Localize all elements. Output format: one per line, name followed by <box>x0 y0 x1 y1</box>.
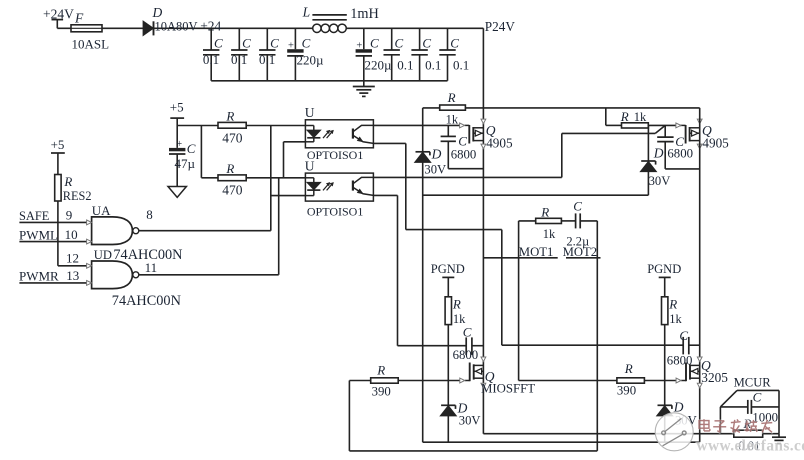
net MOT2 <box>563 245 601 259</box>
svg-text:C: C <box>422 36 431 51</box>
svg-text:SAFE: SAFE <box>19 209 49 223</box>
svg-text:UA: UA <box>92 203 111 218</box>
transistor Q MIOSFFT (left low N-MOSFET) <box>460 357 535 396</box>
pin 11 label <box>145 260 158 275</box>
svg-text:12: 12 <box>66 251 79 266</box>
svg-text:10ASL: 10ASL <box>72 36 110 51</box>
resistor R RES2 <box>55 174 92 203</box>
svg-text:C: C <box>242 36 251 51</box>
svg-text:P24V: P24V <box>485 19 516 34</box>
wire left gate-pullup branch <box>422 108 424 442</box>
capacitor C 6800 (right low-side) <box>667 328 693 368</box>
svg-text:C: C <box>753 390 762 405</box>
svg-text:1k: 1k <box>634 110 647 124</box>
node +24 <box>200 19 221 34</box>
wire source rail <box>483 433 779 435</box>
svg-text:R: R <box>376 363 385 378</box>
svg-text:6800: 6800 <box>453 348 479 362</box>
svg-text:74AHC00N: 74AHC00N <box>112 293 181 309</box>
wire right gate line <box>519 380 677 382</box>
svg-text:13: 13 <box>66 268 79 283</box>
port PGND (left) <box>431 262 465 297</box>
svg-text:U: U <box>305 159 315 174</box>
capacitor C 2.2u (snubber) <box>566 199 597 249</box>
svg-text:PWML: PWML <box>19 227 58 242</box>
capacitor C 0.1 (input group 2) <box>231 28 251 81</box>
svg-text:+5: +5 <box>170 100 184 115</box>
wire opto1 cathode <box>284 142 306 178</box>
svg-text:D: D <box>653 145 664 160</box>
wire low drain link (right) <box>502 344 700 346</box>
svg-text:1k: 1k <box>669 312 682 326</box>
svg-text:PGND: PGND <box>647 262 681 276</box>
svg-text:220µ: 220µ <box>297 52 325 67</box>
wire +5 to R470s <box>177 126 218 178</box>
pin 12 label <box>66 251 79 266</box>
wire opto2 collector run <box>373 133 655 177</box>
svg-text:D: D <box>431 147 442 162</box>
resistor R 390 (left) <box>371 363 399 399</box>
svg-text:RES2: RES2 <box>63 189 92 203</box>
diode D 30V (right high-side zener) <box>641 125 671 195</box>
resistor R 1k (left high-side) <box>440 90 466 127</box>
svg-text:C: C <box>395 36 404 51</box>
wire R470 upper to opto1 anode <box>246 125 305 127</box>
wire opto2 cathode <box>271 195 306 197</box>
optocoupler U OPTOISO1 (lower) <box>305 159 374 219</box>
svg-text:+5: +5 <box>51 137 65 152</box>
svg-text:4905: 4905 <box>486 136 513 151</box>
wire right low branch <box>664 325 666 443</box>
port +5 (logic) <box>51 137 65 174</box>
wire diagonal to right gate <box>655 125 665 133</box>
nand-gate UA 74AHC00N <box>87 203 183 263</box>
capacitor C 0.1 (input group 1) <box>203 28 223 81</box>
wire P24V rail (left bridge) <box>482 28 484 433</box>
svg-text:0.1: 0.1 <box>397 58 413 73</box>
svg-text:470: 470 <box>222 131 243 146</box>
svg-text:47µ: 47µ <box>175 156 196 171</box>
svg-text:C: C <box>463 324 472 339</box>
svg-text:0.1: 0.1 <box>231 52 247 67</box>
svg-text:D: D <box>152 5 163 20</box>
svg-text:C: C <box>679 328 688 343</box>
node P24V <box>485 19 516 34</box>
capacitor C 0.1 (output group 3) <box>439 28 469 81</box>
svg-text:30V: 30V <box>459 414 481 428</box>
svg-text:R: R <box>668 297 677 312</box>
svg-text:R: R <box>624 361 633 376</box>
svg-text:4905: 4905 <box>702 136 729 151</box>
svg-text:470: 470 <box>222 182 243 197</box>
wire out11 riser <box>278 178 280 275</box>
svg-text:MCUR: MCUR <box>734 376 772 390</box>
svg-text:C: C <box>458 134 467 149</box>
transistor Q 4905 (left high-side P-MOSFET) <box>460 119 513 151</box>
port PGND (right) <box>647 262 681 297</box>
svg-text:PGND: PGND <box>431 262 465 276</box>
fuse F 10ASL <box>71 10 109 51</box>
wire left gate line <box>349 381 459 451</box>
svg-text:+: + <box>356 41 362 52</box>
diode D 30V (right low zener) <box>657 400 697 428</box>
net SAFE <box>19 209 87 223</box>
resistor R 1k (left low pullup) <box>445 297 466 326</box>
svg-text:C: C <box>270 36 279 51</box>
svg-text:R: R <box>225 161 234 176</box>
svg-text:0.1: 0.1 <box>259 52 275 67</box>
svg-text:3205: 3205 <box>701 370 728 385</box>
diode D 30V (left low zener) <box>441 401 481 428</box>
capacitor C 220u (after inductor) <box>356 28 392 81</box>
svg-text:0.1: 0.1 <box>453 58 469 73</box>
ground (triangle) +5 filter <box>168 187 186 198</box>
svg-text:R: R <box>540 205 549 220</box>
resistor R 0.01 (shunt) <box>734 416 763 453</box>
svg-text:6800: 6800 <box>667 147 693 161</box>
svg-text:R: R <box>225 108 234 123</box>
svg-text:R: R <box>447 90 456 105</box>
svg-text:C: C <box>573 199 582 214</box>
transistor Q 4905 (right high-side P-MOSFET) <box>676 119 729 151</box>
svg-text:+: + <box>288 41 294 52</box>
port +24V <box>43 6 74 28</box>
resistor R 1k (snubber) <box>519 205 576 242</box>
resistor R 470 (upper) <box>218 108 246 145</box>
svg-text:C: C <box>450 36 459 51</box>
watermark url text <box>697 438 804 455</box>
wire opto2 emitter run <box>373 195 397 345</box>
svg-text:6800: 6800 <box>667 354 693 368</box>
capacitor C 6800 (left low-side) <box>453 324 479 362</box>
svg-text:10A80V: 10A80V <box>155 19 198 33</box>
port +5 (filter) <box>170 100 184 126</box>
svg-text:MIOSFFT: MIOSFFT <box>481 382 535 396</box>
watermark text (CJK) <box>699 419 772 432</box>
svg-text:9: 9 <box>66 208 73 223</box>
svg-text:R: R <box>620 109 629 124</box>
svg-text:8: 8 <box>146 207 153 222</box>
nand-gate UD 74AHC00N <box>87 248 181 309</box>
wire RES2 to pin12 <box>58 201 87 266</box>
svg-text:1k: 1k <box>543 227 556 241</box>
pin 10 label <box>65 227 78 242</box>
wire low drain link (left) <box>398 345 484 347</box>
capacitor C 47u <box>169 126 196 187</box>
pin 8 label <box>146 207 153 222</box>
svg-text:OPTOISO1: OPTOISO1 <box>307 148 363 162</box>
svg-text:R: R <box>63 174 72 189</box>
pin 9 label <box>66 208 73 223</box>
ground (earth) power input <box>353 81 375 97</box>
svg-text:OPTOISO1: OPTOISO1 <box>307 205 363 219</box>
svg-text:+: + <box>176 139 182 150</box>
wire MCUR right leg <box>778 390 780 433</box>
wire zener rail <box>423 441 700 443</box>
svg-text:30V: 30V <box>424 163 446 177</box>
svg-text:PWMR: PWMR <box>19 269 59 284</box>
wire left low branch <box>447 325 449 443</box>
wire opto1 collector to gate <box>373 124 462 126</box>
ground (earth) shunt <box>772 434 786 444</box>
capacitor C 6800 (right high-side) <box>657 125 700 168</box>
net PWMR <box>19 269 87 284</box>
wire opto1 emitter run <box>373 143 501 345</box>
resistor R 1k (right high-side) <box>606 109 681 128</box>
capacitor C 0.1 (output group 2) <box>411 28 441 81</box>
svg-text:0.1: 0.1 <box>425 58 441 73</box>
resistor R 390 (right) <box>617 361 645 398</box>
svg-text:220µ: 220µ <box>365 58 393 73</box>
svg-text:MOT1: MOT1 <box>519 245 554 259</box>
wire R470 lower to opto2 anode <box>246 177 305 179</box>
wire MCUR tap <box>720 407 747 434</box>
svg-text:2.2µ: 2.2µ <box>566 235 589 249</box>
svg-text:390: 390 <box>372 385 391 399</box>
wire snubber left leg <box>518 221 520 381</box>
watermark logo circle <box>655 413 693 451</box>
svg-text:R: R <box>452 297 461 312</box>
svg-text:C: C <box>370 36 379 51</box>
svg-text:30V: 30V <box>649 174 671 188</box>
svg-text:L: L <box>302 4 311 19</box>
wire zener return (horizontal) <box>423 194 649 196</box>
svg-text:11: 11 <box>145 260 158 275</box>
wire MOT2 drop <box>596 221 598 451</box>
diode D 10A80V <box>143 5 197 36</box>
optocoupler U OPTOISO1 (upper) <box>305 105 374 162</box>
svg-text:1mH: 1mH <box>350 6 379 22</box>
svg-text:www.elecfans.com: www.elecfans.com <box>697 438 804 455</box>
wire P24V distribution <box>423 107 700 109</box>
net MCUR <box>720 376 779 407</box>
wire +24V input rail <box>57 27 483 29</box>
capacitor C 0.1 (input group 3) <box>259 28 279 81</box>
svg-text:F: F <box>74 10 84 25</box>
svg-text:UD: UD <box>94 248 112 262</box>
capacitor C 1000 <box>748 390 779 425</box>
svg-text:U: U <box>305 105 315 120</box>
svg-text:390: 390 <box>617 384 636 398</box>
wire right bridge rail <box>699 108 701 442</box>
inductor L 1mH <box>302 4 379 32</box>
svg-text:0.1: 0.1 <box>203 52 219 67</box>
transistor Q 3205 (right low N-MOSFET) <box>676 357 728 388</box>
net PWML <box>19 227 87 242</box>
svg-text:10: 10 <box>65 227 78 242</box>
capacitor C 220u (input electrolytic) <box>287 28 324 81</box>
wire gate-return rail <box>349 450 597 452</box>
pin 13 label <box>66 268 79 283</box>
resistor R 1k (right low pullup) <box>662 297 683 326</box>
wire cap bottom rail <box>211 80 447 82</box>
svg-text:C: C <box>187 141 196 156</box>
capacitor C 6800 (left high-side) <box>441 125 484 168</box>
net MOT1 <box>483 245 557 259</box>
svg-text:C: C <box>214 36 223 51</box>
capacitor C 0.1 (output group 1) <box>384 28 414 81</box>
resistor R 470 (lower) <box>218 161 246 198</box>
svg-text:C: C <box>302 36 311 51</box>
wire right R1k feed <box>605 108 607 126</box>
diode D 30V (left high-side zener) <box>415 147 446 177</box>
wire UD output 11 <box>139 274 279 276</box>
wire UA output 8 <box>139 230 271 232</box>
svg-text:6800: 6800 <box>451 148 477 162</box>
wire out8 riser <box>270 126 272 231</box>
